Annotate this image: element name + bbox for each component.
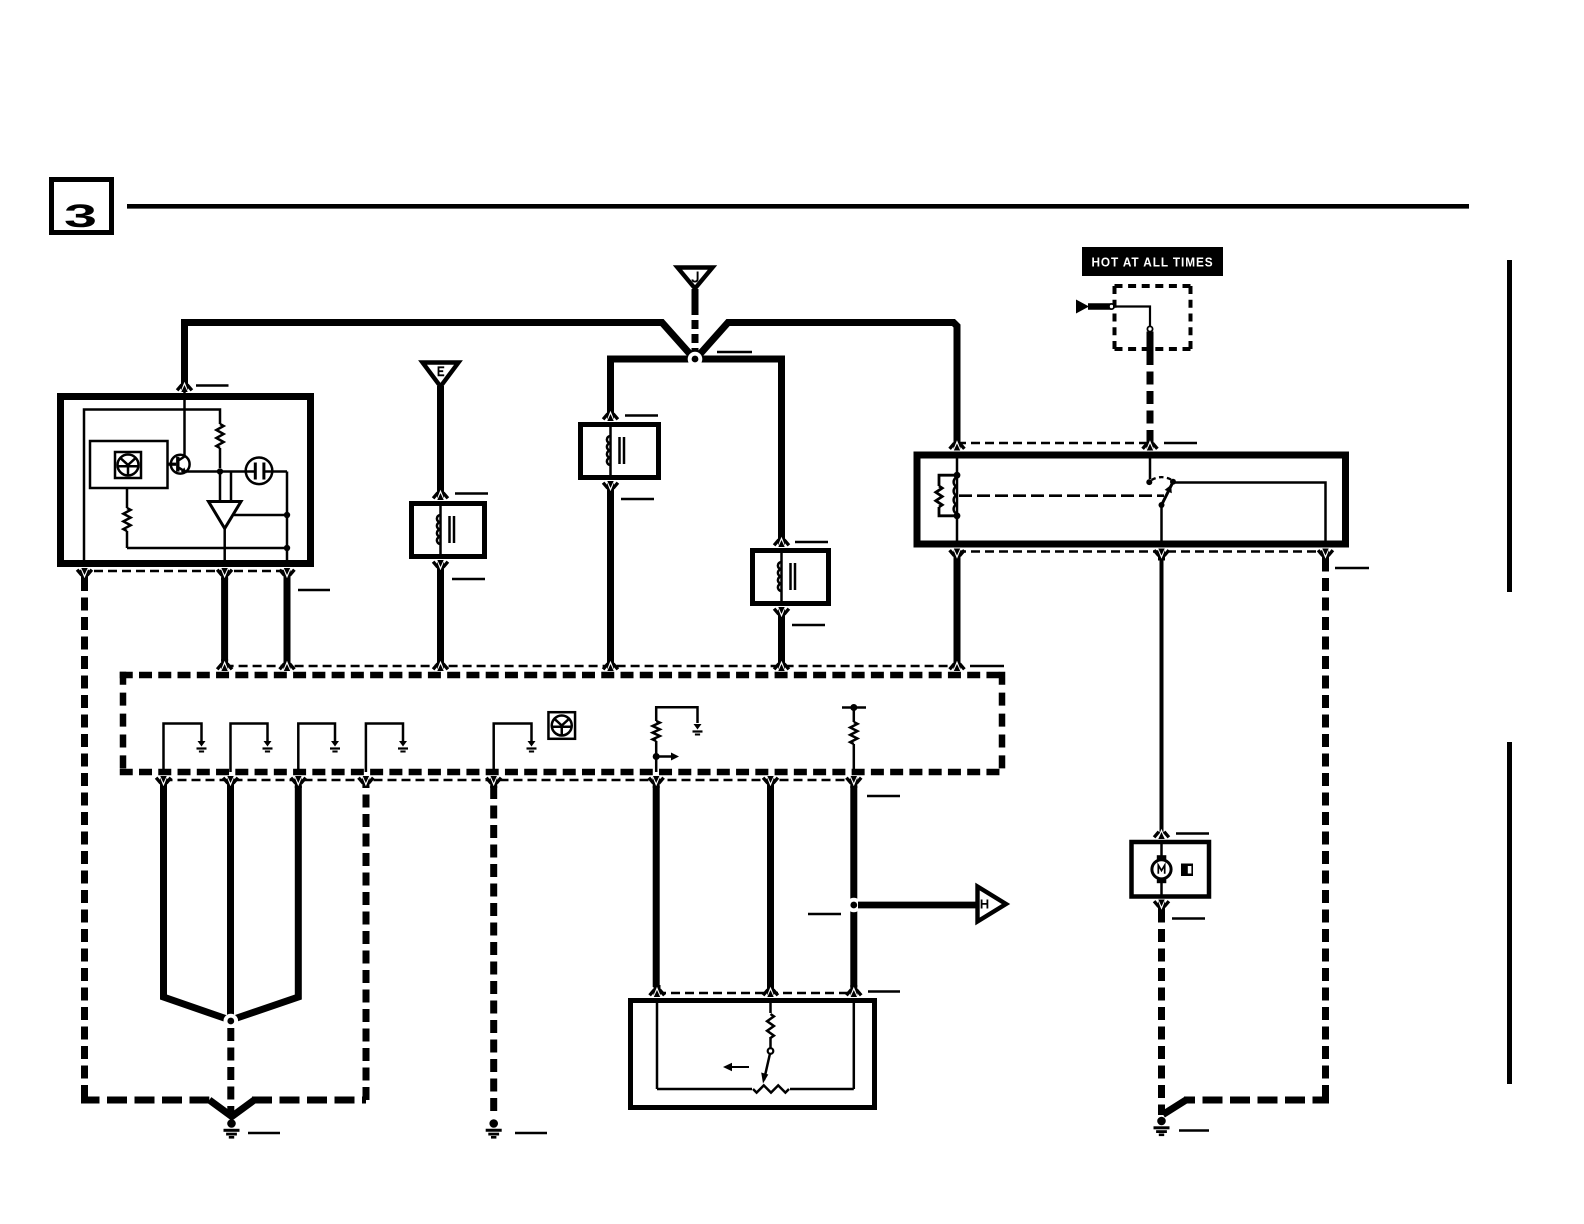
ECU internal ground bracket 1 xyxy=(164,724,202,773)
wire: ECU out2 to splice xyxy=(227,786,234,1018)
connector pin: L1 bottom xyxy=(437,561,444,572)
ECU switch sub-circuit xyxy=(655,741,658,772)
connector pin: motor feed xyxy=(1160,827,1164,838)
connector pin: ECU out 5 xyxy=(490,777,497,788)
ECU sense resistor R3 xyxy=(853,744,856,772)
wire: capacitor left lead to op-amp top xyxy=(230,472,233,502)
relay fixed contact xyxy=(1149,455,1152,479)
relay bottom connector dashed line xyxy=(957,550,1326,553)
wire: L1 to ECU xyxy=(437,570,444,661)
ground G1 xyxy=(227,1119,236,1128)
antenna motor relay box xyxy=(917,455,1346,544)
label line: ECU supply wire xyxy=(970,665,1004,668)
wire: R2 to right rail xyxy=(127,547,287,550)
connector pin: relay fused feed xyxy=(1147,439,1154,450)
connector pin: potentiometer 2 xyxy=(767,985,774,996)
wire: R1 to transistor node xyxy=(219,448,222,468)
ground G2 xyxy=(489,1119,498,1128)
fusible link element xyxy=(1113,307,1150,328)
wire: take-off to connector H xyxy=(858,902,976,909)
ECU internal ground bracket 2 xyxy=(231,724,268,773)
connector pin: ECU out 2 xyxy=(227,777,234,788)
label line: sense wire upper xyxy=(867,795,900,798)
wire: relay contact to ground pin xyxy=(1173,483,1326,545)
relay coil L4 xyxy=(956,455,959,475)
antenna position sensor box xyxy=(631,1001,875,1108)
wire: relay output to motor pin xyxy=(1160,505,1163,544)
wire: ECU out1 to splice xyxy=(164,786,228,1019)
motor M1 xyxy=(1160,842,1163,856)
connector pin: L2 top xyxy=(607,409,614,420)
wire: L2 to ECU xyxy=(607,491,614,661)
connector pin: L3 top xyxy=(778,535,785,546)
wire: ECU out6 to potentiometer xyxy=(653,786,660,987)
ECU top connector dashed line xyxy=(225,665,957,668)
junction node J1 xyxy=(688,352,703,367)
label line: ground G1 xyxy=(248,1132,280,1135)
motor connector icon xyxy=(1181,864,1193,877)
label line: L1 output wire xyxy=(452,578,485,581)
relay contact gap (dashed) xyxy=(1152,477,1172,480)
connector pin: ECU out 3 xyxy=(295,777,302,788)
connector pin: L3 bottom xyxy=(778,608,785,619)
connector pin: ECU out 7 xyxy=(767,777,774,788)
connector pin: potentiometer 1 xyxy=(654,985,661,996)
label line: L2 input wire xyxy=(625,414,658,417)
noise filter L2 coil xyxy=(609,425,612,437)
relay pivot contact xyxy=(1170,479,1176,485)
connector pin: L2 bottom xyxy=(607,482,614,493)
connector pin: ECU out 1 xyxy=(160,777,167,788)
fusible link box (dashed) xyxy=(1115,284,1191,288)
node B junction dot xyxy=(217,468,223,474)
connector E triangle xyxy=(423,363,459,387)
connector pin: relay case ground xyxy=(1322,550,1329,561)
label line: motor ground wire xyxy=(1172,917,1205,920)
wire: connector J lead (dashed) xyxy=(692,289,699,306)
wire: op-amp output to pin xyxy=(223,529,226,564)
label line: amplifier supply wire xyxy=(196,384,229,387)
connector pin: relay output xyxy=(1158,550,1165,561)
label line: relay feed wire xyxy=(1164,442,1197,445)
page number box xyxy=(52,180,112,233)
ground G3 xyxy=(1157,1117,1166,1126)
svg-text:3: 3 xyxy=(64,198,97,234)
connector pin: ECU in 4 xyxy=(607,659,614,670)
wire: L3 to ECU xyxy=(778,617,785,661)
relay moving contact xyxy=(1159,502,1165,508)
label line: L3 input wire xyxy=(795,541,828,544)
antenna motor box xyxy=(1132,842,1210,897)
wire: ECU out5 to ground (dashed) xyxy=(490,786,497,1116)
wire: relay ground (dashed) to ground point xyxy=(1322,559,1329,1096)
label line: potentiometer right wire xyxy=(868,990,900,993)
connector pin: motor ground xyxy=(1158,901,1165,912)
label line: L3 output wire xyxy=(792,624,825,627)
position sensor track R5 xyxy=(657,1088,752,1091)
node C junction dot xyxy=(284,512,290,518)
position sensor wiper arrow xyxy=(731,1066,749,1068)
ECU bottom connector dashed line xyxy=(164,779,855,782)
connector pin: potentiometer 3 xyxy=(850,985,857,996)
header rule xyxy=(127,204,1469,209)
capacitor C1 xyxy=(246,458,273,485)
relay top connector dashed line xyxy=(957,442,1150,445)
connector pin: ECU out 6 xyxy=(653,777,660,788)
wire: fusible link to relay (dashed) xyxy=(1147,352,1154,441)
node H junction dot xyxy=(847,898,862,913)
connector pin: ECU out 8 xyxy=(850,777,857,788)
label line: amplifier output wire xyxy=(298,589,330,592)
node D junction dot xyxy=(284,545,290,551)
connector pin: ECU in 1 xyxy=(221,659,228,670)
wire: relay output to motor xyxy=(1160,559,1164,830)
relay armature mechanical link (dashed) xyxy=(959,494,1164,497)
connector pin: relay coil ground xyxy=(954,550,961,561)
resistor R1 (amplifier bias) xyxy=(216,424,223,448)
amplifier internal bus xyxy=(84,410,220,564)
position sensor wiper contact xyxy=(768,1048,774,1054)
wire: amplifier pin3 to ECU xyxy=(284,578,291,661)
noise filter L1 coil xyxy=(439,504,442,516)
wire: emitter to node B xyxy=(183,470,231,473)
right margin bar upper xyxy=(1507,260,1512,592)
wire: op-amp to right rail xyxy=(234,514,287,517)
connector pin: amplifier pin 1 xyxy=(81,569,88,580)
connector pin: ECU in 2 xyxy=(284,659,291,670)
op-amp U1 xyxy=(209,502,242,529)
wire: junction J1 to relay supply xyxy=(696,323,957,441)
ECU internal ground bracket 4 xyxy=(366,724,403,773)
ECU internal ground bracket 3 xyxy=(298,724,335,773)
splice node S1 xyxy=(224,1014,239,1029)
ECU steering sensor icon xyxy=(548,712,575,739)
noise filter L2 box xyxy=(581,425,659,478)
antenna amplifier box xyxy=(61,397,311,564)
connector pin: ECU in 6 xyxy=(954,659,961,670)
noise filter L1 box xyxy=(412,504,485,557)
HOT AT ALL TIMES label xyxy=(1082,247,1223,276)
wire: battery feed from antenna amplifier to junction J1 xyxy=(185,323,695,383)
label line: wire colour at junction J1 xyxy=(717,351,752,354)
connector pin: ECU in 5 xyxy=(778,659,785,670)
wire: amplifier ground (dashed) to ground rail xyxy=(81,578,88,1097)
wire: splice to ground rail (dashed) xyxy=(227,1028,234,1112)
label line: motor feed wire xyxy=(1176,832,1209,835)
connector pin: amplifier pin 2 xyxy=(221,569,228,580)
wire: amplifier input from connector xyxy=(183,385,186,456)
position sensor right rail xyxy=(853,1001,856,1090)
ECU internal ground bracket 5 xyxy=(494,724,532,773)
label line: sense wire at node H xyxy=(808,913,841,916)
wire: feedback right rail xyxy=(286,472,289,564)
radio / ECU box (dashed) xyxy=(120,672,1006,679)
connector pin: L1 top xyxy=(437,488,444,499)
ECU sense node dot xyxy=(850,704,857,711)
label line: L1 input wire xyxy=(455,492,488,495)
potentiometer top connector dashed line xyxy=(657,992,854,995)
connector pin: ECU in 3 xyxy=(437,659,444,670)
ECU switch arrow xyxy=(656,755,672,758)
wire: motor to ground (dashed) xyxy=(1158,910,1165,1116)
wire: junction J1 branch bus to noise filters xyxy=(611,359,782,537)
label line: ground G3 xyxy=(1179,1129,1209,1132)
fusible link feed arrow xyxy=(1076,300,1089,314)
svg-text:HOT AT ALL TIMES: HOT AT ALL TIMES xyxy=(1092,255,1214,270)
wire: ECU out3 to splice xyxy=(234,786,298,1019)
connector pin: relay supply xyxy=(954,439,961,450)
wire: ECU out8 to potentiometer xyxy=(850,786,857,987)
ground rail (dashed) xyxy=(85,1095,210,1100)
position sensor resistor R4 xyxy=(767,1014,774,1038)
label line: relay ground wire xyxy=(1335,567,1369,570)
wire: connector E to noise filter L1 xyxy=(437,386,444,490)
wire: amplifier pin2 to ECU xyxy=(221,578,228,661)
label line: L2 output wire xyxy=(621,498,654,501)
antenna connector J triangle xyxy=(678,268,713,289)
relay armature xyxy=(1162,482,1173,504)
resistor R2 (sensor load) xyxy=(126,488,129,508)
wire: ECU out7 to potentiometer xyxy=(767,786,774,987)
wire: node B to op-amp xyxy=(219,472,222,504)
transistor Q1 xyxy=(171,455,190,474)
steering sensor block in amplifier xyxy=(90,441,168,488)
connector pin: ECU out 4 xyxy=(362,777,369,788)
noise filter L3 box xyxy=(753,551,829,604)
connector pin: amplifier supply (top) xyxy=(181,380,188,391)
right margin bar lower xyxy=(1507,742,1512,1084)
connector pin: amplifier pin 3 xyxy=(284,569,291,580)
amplifier bottom connector dashed line xyxy=(80,570,290,573)
position sensor wiper arm xyxy=(764,1054,770,1081)
position sensor left rail xyxy=(656,1001,659,1090)
connector H triangle xyxy=(978,887,1007,922)
noise filter L3 coil xyxy=(780,551,783,563)
label line: ground G2 xyxy=(515,1132,547,1135)
ECU switch node dot xyxy=(653,753,660,760)
wire: relay coil to ECU xyxy=(954,559,961,662)
